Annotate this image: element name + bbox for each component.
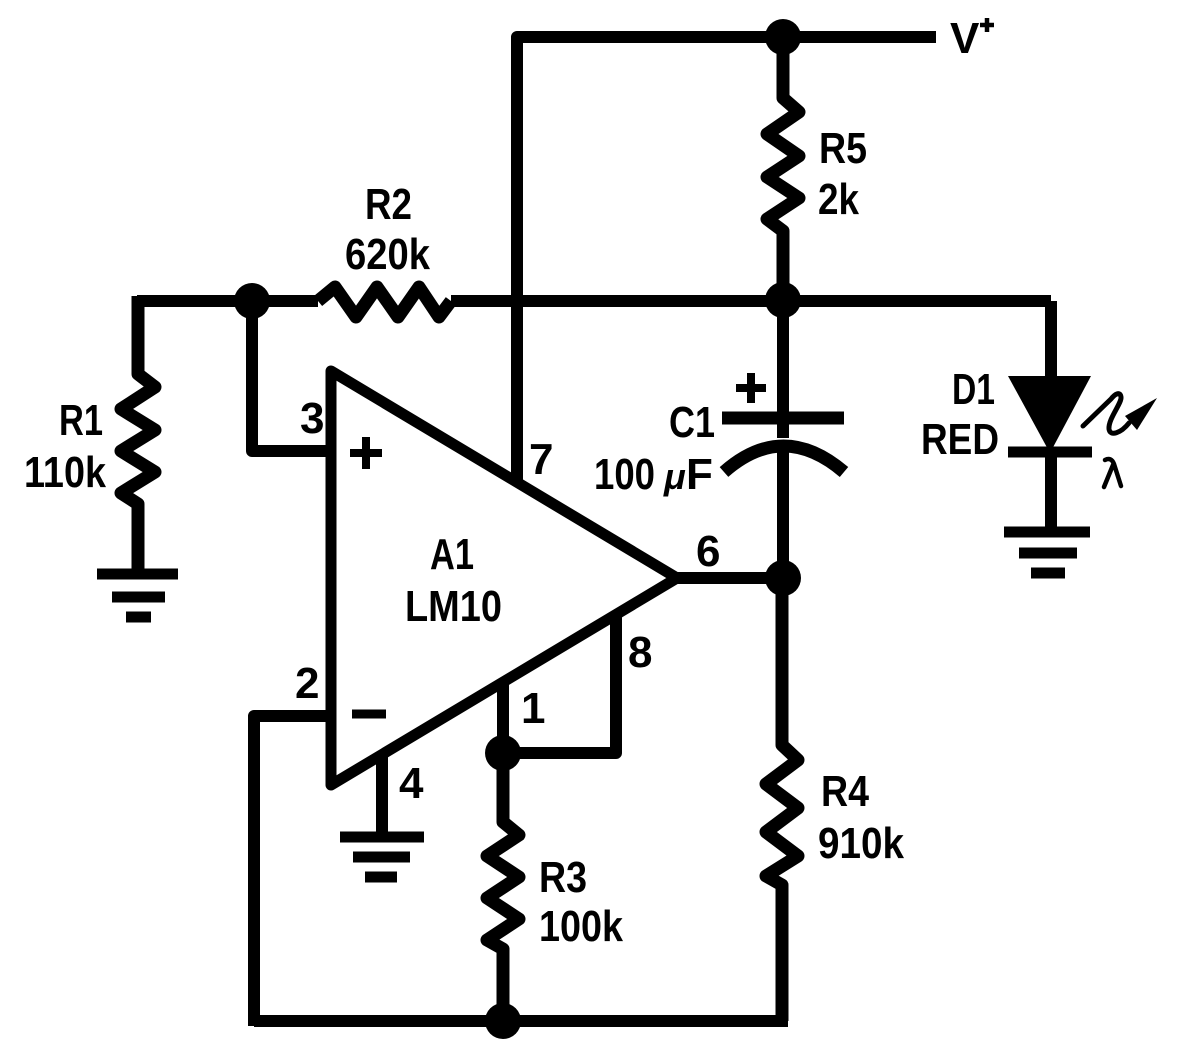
svg-text:1: 1: [521, 684, 545, 733]
wire bottom rail: [254, 1015, 788, 1027]
svg-text:100k: 100k: [539, 902, 623, 951]
wire mid rail right: [451, 295, 1051, 307]
node bottom junction: [485, 1003, 521, 1039]
svg-text:110k: 110k: [24, 448, 106, 497]
svg-text:910k: 910k: [818, 819, 904, 868]
node top junction: [765, 19, 801, 55]
label lambda: [1104, 459, 1121, 487]
svg-text:RED: RED: [921, 415, 999, 464]
capacitor C1 bottom lead: [777, 448, 789, 578]
capacitor C1 top plate: [722, 412, 844, 425]
svg-text:R4: R4: [821, 767, 869, 816]
ground below pin4: [340, 837, 424, 877]
resistor R5: [767, 37, 799, 301]
resistor R3: [487, 753, 519, 1021]
svg-text:C1: C1: [669, 398, 715, 447]
ground below LED: [1004, 532, 1090, 573]
svg-text:V: V: [950, 14, 980, 63]
svg-text:F: F: [686, 450, 713, 499]
C1 plus sign: [736, 373, 766, 403]
wire mid rail left: [137, 295, 318, 307]
capacitor C1 curved plate: [724, 446, 844, 472]
diode D1 LED triangle: [1008, 376, 1091, 453]
svg-text:2: 2: [295, 659, 319, 708]
op-amp plus input marker: [350, 437, 382, 469]
light emission arrowhead: [1125, 398, 1157, 430]
resistor R4: [766, 578, 798, 1021]
wire pin7 vertical: [511, 37, 523, 484]
wire pin6 output: [672, 572, 783, 584]
diode D1 cathode bar: [1008, 447, 1092, 458]
resistor R1: [121, 296, 155, 569]
svg-text:R3: R3: [539, 853, 587, 902]
wire pin2: [254, 716, 331, 1026]
node C1 top junction: [765, 282, 801, 318]
capacitor C1 lead: [777, 301, 789, 438]
ground below R1: [97, 574, 178, 617]
svg-text:7: 7: [529, 435, 553, 484]
wire pin1: [497, 683, 509, 753]
node pin1 junction: [485, 735, 521, 771]
light emission squiggle arrow: [1083, 394, 1129, 434]
svg-text:100: 100: [594, 450, 655, 499]
wire pin3: [252, 301, 331, 451]
svg-text:R5: R5: [819, 124, 867, 173]
svg-text:A1: A1: [430, 530, 474, 579]
svg-text:2k: 2k: [818, 175, 859, 224]
node output junction: [765, 560, 801, 596]
wire LED branch: [1045, 301, 1057, 378]
op-amp A1 triangle: [331, 371, 677, 785]
svg-text:8: 8: [628, 628, 652, 677]
wire top rail V+: [517, 37, 936, 43]
svg-text:LM10: LM10: [405, 582, 502, 631]
wire LED to ground: [1045, 452, 1057, 533]
resistor R2: [318, 287, 451, 317]
svg-text:4: 4: [399, 759, 424, 808]
svg-text:620k: 620k: [345, 230, 430, 279]
svg-text:R2: R2: [365, 180, 412, 229]
svg-text:3: 3: [300, 394, 324, 443]
node feedback junction: [234, 283, 270, 319]
svg-text:D1: D1: [952, 365, 995, 414]
op-amp minus input marker: [352, 710, 386, 719]
wire pin8: [503, 616, 616, 753]
V+ superscript plus: [980, 18, 994, 32]
wire pin4: [376, 757, 388, 836]
svg-text:μ: μ: [663, 456, 686, 497]
svg-text:R1: R1: [59, 396, 103, 445]
svg-text:6: 6: [696, 527, 720, 576]
